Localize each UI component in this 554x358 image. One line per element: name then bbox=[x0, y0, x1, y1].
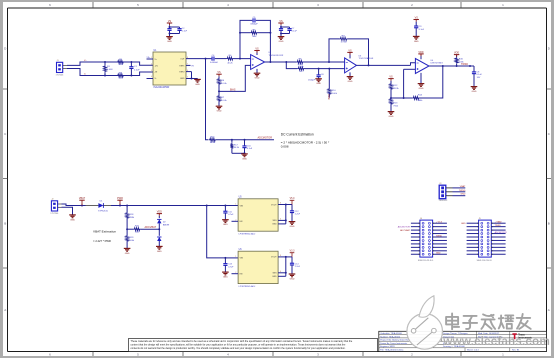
svg-text:V3.3: V3.3 bbox=[290, 251, 295, 253]
svg-text:GND: GND bbox=[223, 224, 228, 226]
svg-text:1: 1 bbox=[235, 256, 236, 258]
ground bbox=[166, 37, 173, 43]
svg-text:45.3k: 45.3k bbox=[210, 142, 216, 144]
svg-text:GND: GND bbox=[414, 41, 419, 43]
ground U1 bbox=[194, 79, 201, 86]
svg-text:B: B bbox=[4, 222, 6, 226]
power VS U3 bbox=[347, 49, 352, 54]
svg-text:1757246: 1757246 bbox=[50, 213, 59, 215]
svg-text:www.elecfans.com: www.elecfans.com bbox=[442, 334, 550, 348]
svg-text:VS: VS bbox=[348, 49, 352, 52]
svg-text:4: 4 bbox=[151, 76, 152, 78]
svg-text:16V: 16V bbox=[477, 77, 481, 79]
svg-text:Engineer: WRR: Engineer: WRR bbox=[380, 345, 395, 348]
power VS decoupling bbox=[167, 20, 188, 36]
svg-text:GND: GND bbox=[167, 41, 172, 43]
svg-text:TWSD: TWSD bbox=[495, 225, 502, 227]
ground divider bbox=[388, 112, 395, 118]
svg-text:2: 2 bbox=[151, 63, 152, 65]
svg-text:GND: GND bbox=[472, 91, 477, 93]
ground U3 bbox=[347, 77, 354, 83]
capacitor C11 input bbox=[223, 205, 238, 220]
svg-text:REF1: REF1 bbox=[179, 65, 185, 67]
svg-text:VOUT: VOUT bbox=[271, 257, 277, 259]
power VDD pullup bbox=[454, 52, 460, 57]
svg-text:V-: V- bbox=[84, 74, 86, 76]
svg-text:GND: GND bbox=[223, 277, 228, 279]
svg-text:0.008: 0.008 bbox=[281, 145, 289, 149]
svg-text:BAV99: BAV99 bbox=[163, 223, 170, 226]
watermark text bbox=[442, 313, 550, 348]
wire threshold bbox=[391, 69, 415, 99]
svg-text:B: B bbox=[548, 222, 550, 226]
svg-text:TWSD: TWSD bbox=[436, 235, 443, 237]
svg-text:ADCVBAT: ADCVBAT bbox=[145, 226, 157, 229]
svg-text:contents do not warrant that t: contents do not warrant that the design … bbox=[131, 347, 346, 350]
wire reg2 feed bbox=[207, 206, 226, 258]
svg-text:GND: GND bbox=[125, 253, 130, 255]
ground divider VBAT bbox=[124, 248, 131, 254]
svg-text:GND: GND bbox=[290, 278, 295, 280]
svg-text:0.1uF: 0.1uF bbox=[247, 148, 253, 150]
header J5 bbox=[461, 218, 507, 262]
note VBAT estimation bbox=[93, 230, 116, 243]
connector J3 bbox=[439, 183, 466, 202]
resistor R10 1.00k to BIAS bbox=[328, 69, 338, 100]
capacitor C5 3300pF feedback bbox=[240, 17, 270, 62]
svg-text:Rev: E1: Rev: E1 bbox=[512, 350, 520, 352]
connector J1 bbox=[56, 60, 68, 76]
svg-text:10.0k: 10.0k bbox=[221, 100, 227, 102]
svg-text:REF2: REF2 bbox=[179, 72, 185, 74]
power V5.0 bbox=[290, 198, 295, 204]
resistor R19 100k bbox=[126, 229, 135, 248]
svg-text:282834-3: 282834-3 bbox=[439, 200, 448, 202]
svg-text:1757246: 1757246 bbox=[56, 75, 65, 77]
op-amp U3 TLV1702 bbox=[345, 52, 374, 76]
svg-text:4.7uF: 4.7uF bbox=[228, 267, 234, 269]
svg-text:GND: GND bbox=[389, 116, 394, 118]
ground bias bbox=[216, 106, 223, 112]
title block bbox=[379, 331, 547, 351]
resistor R20 100k ADCVBAT bbox=[127, 226, 160, 234]
svg-text:VBAT: VBAT bbox=[460, 185, 466, 188]
svg-text:VDD: VDD bbox=[418, 51, 423, 54]
ground C14 bbox=[289, 274, 296, 280]
svg-text:GND: GND bbox=[461, 223, 466, 225]
wire U6 output bbox=[278, 256, 292, 276]
resistor R18 499k bbox=[126, 206, 135, 231]
watermark logo circle bbox=[407, 296, 443, 349]
wire REF2 to GND bbox=[186, 72, 198, 80]
ground C12 bbox=[289, 222, 296, 228]
resistor R17 90.9k bbox=[230, 140, 239, 154]
svg-text:VS: VS bbox=[389, 76, 393, 79]
svg-text:VS: VS bbox=[168, 20, 172, 23]
resistor R15 100k pullup bbox=[455, 55, 464, 66]
IC U1 INA240A2PWR bbox=[151, 50, 188, 89]
svg-text:V-: V- bbox=[155, 78, 157, 80]
svg-text:File: TIDA-01606.SchDoc: File: TIDA-01606.SchDoc bbox=[380, 349, 404, 352]
wire U6 EN stub bbox=[232, 273, 239, 275]
wire ADCMOTOR tap bbox=[206, 59, 209, 140]
svg-text:SSW-110-23-F-D: SSW-110-23-F-D bbox=[477, 260, 493, 262]
svg-text:GND: GND bbox=[272, 224, 277, 226]
svg-text:+ V3.3: + V3.3 bbox=[436, 222, 443, 224]
svg-text:2.2uF: 2.2uF bbox=[295, 214, 301, 216]
ground C8 bbox=[471, 87, 478, 93]
ground C11 bbox=[222, 220, 229, 226]
svg-text:ADCVBAT: ADCVBAT bbox=[400, 229, 410, 232]
resistor R8 2.00k bbox=[297, 59, 345, 67]
power VS U2 bbox=[254, 48, 259, 53]
svg-text:VBAT Estimation: VBAT Estimation bbox=[93, 230, 116, 234]
ground U4 bbox=[418, 84, 425, 90]
wire U5 EN stub bbox=[232, 220, 239, 222]
capacitor C13 input bbox=[223, 257, 238, 272]
svg-text:GND: GND bbox=[180, 78, 185, 80]
svg-text:ADCMOTOR: ADCMOTOR bbox=[495, 231, 508, 234]
connector J2 bbox=[50, 199, 61, 216]
svg-text:GND: GND bbox=[419, 88, 424, 90]
svg-text:LP38798SD-ADJ: LP38798SD-ADJ bbox=[239, 285, 256, 288]
wire U5 output bbox=[278, 204, 292, 224]
svg-text:ADCMOTOR: ADCMOTOR bbox=[258, 136, 273, 139]
svg-text:A: A bbox=[548, 308, 550, 312]
svg-text:Number: TIDA-01606: Number: TIDA-01606 bbox=[380, 335, 401, 338]
power VS decoupling right bbox=[414, 17, 425, 37]
svg-text:VS: VS bbox=[415, 17, 419, 20]
resistor R4 40.2k bbox=[227, 55, 251, 64]
svg-text:VS: VS bbox=[279, 20, 283, 23]
svg-text:1500pF: 1500pF bbox=[308, 79, 316, 81]
wire pin4 stub bbox=[147, 78, 154, 80]
svg-text:VIN: VIN bbox=[240, 258, 244, 260]
ground D2 bbox=[156, 246, 163, 252]
wire VS+ pin1 bbox=[147, 57, 154, 59]
svg-text:+ VBAT: + VBAT bbox=[495, 221, 503, 224]
svg-text:V5.0: V5.0 bbox=[290, 198, 295, 200]
power VDD U4 bbox=[418, 51, 424, 56]
svg-text:TWSD: TWSD bbox=[459, 190, 466, 192]
note DC current estimation bbox=[281, 133, 330, 149]
threshold divider R12 R13 bbox=[388, 76, 399, 112]
svg-text:= 2.427 * PWR: = 2.427 * PWR bbox=[93, 239, 111, 243]
op-amp U4 LMV7275 bbox=[415, 54, 443, 84]
IC U5 LP38798SD-ADJ bbox=[235, 197, 281, 236]
svg-text:GND: GND bbox=[272, 276, 277, 278]
diode D2 clamp bbox=[157, 211, 170, 247]
svg-text:49.9k: 49.9k bbox=[393, 88, 399, 90]
capacitor C8 0.1uF out bbox=[472, 66, 483, 87]
svg-text:1: 1 bbox=[235, 204, 236, 206]
ground J2 bbox=[69, 215, 76, 221]
svg-text:Sheet: 1 of 2: Sheet: 1 of 2 bbox=[467, 349, 480, 352]
capacitor C12 output bbox=[290, 205, 301, 222]
svg-text:GND: GND bbox=[290, 226, 295, 228]
wire stage2 out bbox=[357, 63, 416, 67]
svg-text:BIAS: BIAS bbox=[328, 94, 331, 100]
capacitor C6 1500pF bbox=[308, 69, 324, 82]
wire REF1 VS bbox=[186, 65, 195, 67]
svg-text:SNS: SNS bbox=[272, 220, 277, 222]
svg-text:0.1uF: 0.1uF bbox=[419, 29, 425, 31]
svg-text:2.2uF: 2.2uF bbox=[295, 266, 301, 268]
svg-text:GND: GND bbox=[157, 251, 162, 253]
ground decoupling right bbox=[413, 36, 420, 42]
diode D1 bbox=[98, 201, 128, 213]
wire V- bbox=[67, 69, 153, 76]
capacitor C14 output bbox=[290, 257, 301, 274]
svg-text:GND: GND bbox=[217, 111, 222, 113]
svg-text:GND: GND bbox=[70, 219, 75, 221]
wire VBAT rail bbox=[62, 204, 99, 207]
wire J2 gnd bbox=[62, 207, 73, 214]
svg-text:2.2uF: 2.2uF bbox=[134, 69, 140, 71]
svg-text:VIN: VIN bbox=[240, 205, 244, 207]
capacitor C10 0.1uF bbox=[242, 140, 252, 154]
svg-text:DC Current Estimation: DC Current Estimation bbox=[281, 133, 314, 137]
svg-text:40.2k: 40.2k bbox=[227, 62, 233, 64]
svg-text:SNS: SNS bbox=[272, 273, 277, 275]
svg-text:4.7uF: 4.7uF bbox=[228, 214, 234, 216]
svg-text:VS: VS bbox=[217, 71, 221, 74]
wire V+ bbox=[67, 60, 153, 65]
svg-text:PWR: PWR bbox=[117, 197, 123, 200]
capacitor C4 0.068uF bbox=[210, 55, 227, 64]
ground decoupling U2 bbox=[278, 37, 285, 43]
svg-text:Drawn By: Texas Instruments: Drawn By: Texas Instruments bbox=[380, 342, 407, 345]
svg-text:GND: GND bbox=[255, 78, 260, 80]
svg-text:VBAT: VBAT bbox=[79, 197, 86, 200]
svg-text:SSW-110-23-F-D: SSW-110-23-F-D bbox=[418, 260, 434, 262]
svg-text:STPS2L60: STPS2L60 bbox=[98, 211, 109, 213]
resistor R1 0.008 shunt bbox=[104, 61, 114, 77]
svg-text:VOUT: VOUT bbox=[271, 204, 277, 206]
svg-text:3: 3 bbox=[151, 70, 152, 72]
power VS decoupling U2 bbox=[278, 20, 297, 36]
resistor R16 45.3k bbox=[209, 136, 274, 144]
svg-text:GND: GND bbox=[195, 84, 200, 86]
svg-text:GND: GND bbox=[316, 83, 321, 85]
svg-text:1.74M: 1.74M bbox=[340, 41, 346, 43]
header J4 bbox=[398, 218, 447, 262]
power VBAT bbox=[79, 197, 86, 205]
power V3.3 bbox=[290, 251, 295, 257]
wire VBAT to regulators bbox=[127, 205, 225, 207]
capacitor C1 2.2uF bbox=[129, 61, 140, 77]
svg-text:TLV9061IDCKR: TLV9061IDCKR bbox=[269, 55, 284, 57]
svg-text:ADCMOTOR: ADCMOTOR bbox=[398, 225, 411, 228]
disclaimer box bbox=[129, 339, 378, 352]
ground tap bbox=[241, 154, 248, 160]
svg-text:VS: VS bbox=[255, 48, 259, 51]
power PWR bbox=[117, 197, 123, 206]
svg-text:Orderable: TIDA-01606: Orderable: TIDA-01606 bbox=[380, 332, 402, 335]
svg-text:0.068uF: 0.068uF bbox=[210, 62, 219, 64]
svg-text:GND: GND bbox=[279, 41, 284, 43]
IC U6 LP38798SD-ADJ bbox=[235, 249, 281, 288]
wire stage1 out bbox=[265, 61, 297, 63]
resistor R5 768k feedback bbox=[239, 29, 271, 38]
svg-text:LP38798SD-ADJ: LP38798SD-ADJ bbox=[239, 232, 256, 235]
wire lower rail bbox=[286, 62, 297, 69]
svg-text:A: A bbox=[4, 308, 6, 312]
wire TWSD out bbox=[429, 63, 474, 67]
resistor R3 10.0 bbox=[117, 73, 124, 80]
wire OUT bbox=[186, 58, 211, 60]
resistor R2 10.0 bbox=[117, 59, 124, 66]
wire tap gnd bbox=[232, 152, 246, 154]
resistor R11 1.74M feedback bbox=[329, 36, 369, 66]
svg-text:GND: GND bbox=[460, 194, 465, 196]
svg-text:10.0k: 10.0k bbox=[221, 83, 227, 85]
svg-text:3300pF: 3300pF bbox=[250, 24, 258, 26]
svg-text:1.00k: 1.00k bbox=[332, 93, 338, 95]
resistor R9 2.00k bbox=[298, 66, 345, 73]
resistor R14 866k feedback bbox=[413, 66, 443, 102]
op-amp U2 TLV9061 bbox=[251, 51, 284, 74]
ground U2 bbox=[254, 73, 261, 79]
ground C6 bbox=[315, 79, 322, 85]
svg-text:VDD: VDD bbox=[157, 211, 162, 214]
svg-text:LMV7275MG: LMV7275MG bbox=[431, 63, 444, 65]
svg-text:0.1uF: 0.1uF bbox=[477, 74, 483, 76]
ground C13 bbox=[222, 272, 229, 278]
svg-text:GND: GND bbox=[348, 81, 353, 83]
svg-text:GND: GND bbox=[242, 158, 247, 160]
svg-text:+IN: +IN bbox=[155, 65, 159, 67]
svg-text:0.008: 0.008 bbox=[107, 69, 113, 71]
svg-text:BIAS: BIAS bbox=[230, 88, 236, 91]
wire BIAS bbox=[219, 65, 251, 91]
svg-text:INA240A2PWR: INA240A2PWR bbox=[154, 86, 170, 89]
svg-text:GND: GND bbox=[436, 253, 441, 255]
svg-text:VDD: VDD bbox=[454, 52, 459, 55]
svg-text:TLV1702AIDGK: TLV1702AIDGK bbox=[359, 57, 374, 60]
svg-text:0.1uF: 0.1uF bbox=[292, 31, 298, 33]
svg-text:0.1uF: 0.1uF bbox=[182, 31, 188, 33]
bias divider R6 R7 bbox=[216, 71, 227, 106]
